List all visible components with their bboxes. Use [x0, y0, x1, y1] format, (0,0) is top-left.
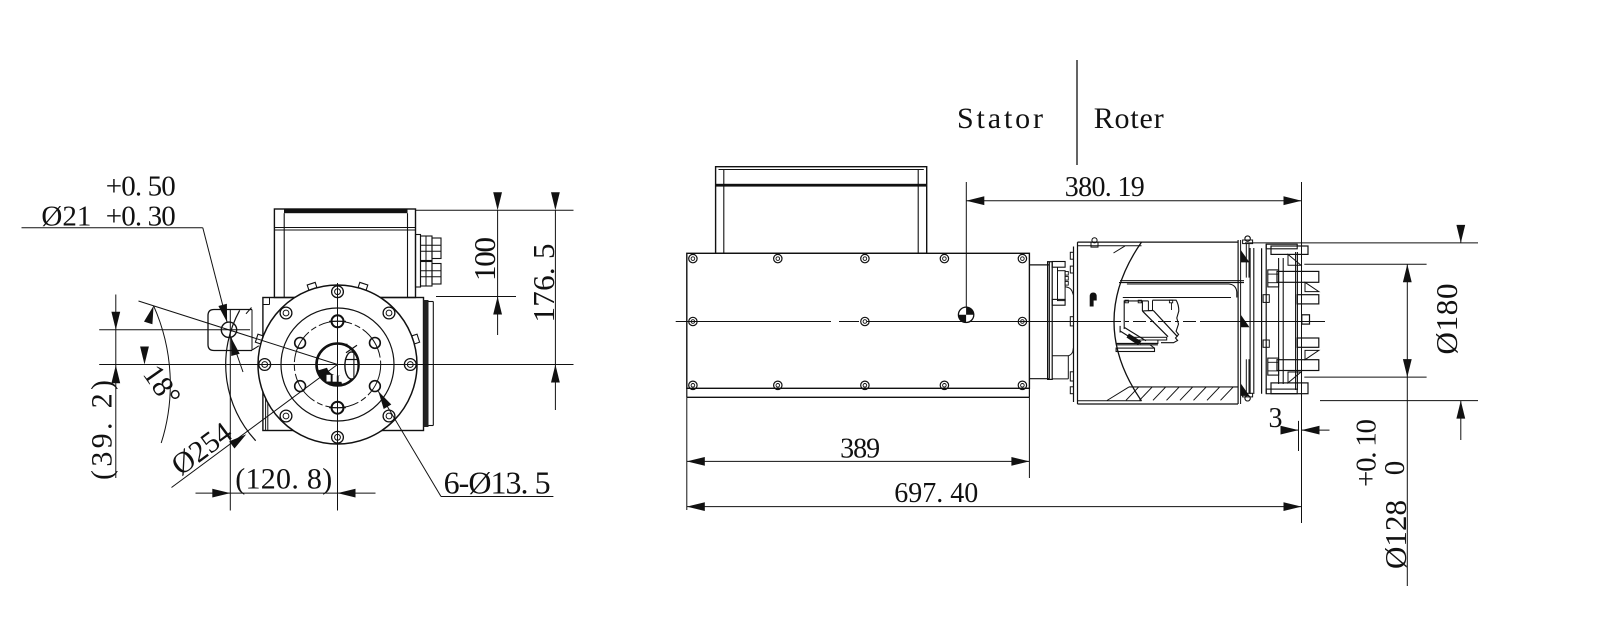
svg-text:Stator: Stator [957, 102, 1043, 135]
hatched section bottom [1129, 386, 1238, 388]
6-Ø13.5 leader [378, 391, 441, 496]
389 dimension [686, 397, 688, 478]
svg-text:(120. 8): (120. 8) [235, 463, 332, 496]
front view motor body plate [263, 298, 424, 431]
rotor clamp mechanism [1124, 301, 1142, 329]
inner bolt detail [1090, 293, 1097, 307]
Ø180 dimension [1245, 242, 1478, 244]
neck cylinder [1029, 264, 1049, 266]
end disc with teeth [1261, 248, 1263, 394]
central bore with shaft section [317, 344, 359, 386]
svg-text:389: 389 [840, 433, 880, 464]
left tab lug [208, 310, 252, 351]
svg-text:3: 3 [1269, 403, 1283, 434]
rotor housing shell [1078, 241, 1239, 243]
flange clip tabs [412, 334, 420, 344]
svg-text:176. 5: 176. 5 [526, 244, 561, 323]
front cable glands [416, 235, 421, 288]
380.19 dimension [965, 182, 967, 307]
flange inner circle [281, 308, 394, 421]
697.40 dimension [686, 478, 688, 510]
rotor left plate [1073, 247, 1075, 403]
3 dimension [1298, 421, 1300, 451]
front horizontal centerline [99, 364, 573, 366]
hatch top-left tick [1114, 246, 1126, 253]
svg-text:Roter: Roter [1094, 102, 1164, 135]
svg-text:+0. 50: +0. 50 [106, 171, 176, 203]
side view stator housing [687, 253, 1030, 388]
176.5 dimension [554, 210, 556, 410]
housing screws [689, 254, 697, 262]
front terminal box [274, 209, 415, 298]
coupling assembly [1048, 262, 1053, 380]
svg-text:+0. 10: +0. 10 [1351, 419, 1383, 487]
svg-text:+0. 30: +0. 30 [106, 201, 176, 233]
svg-text:697. 40: 697. 40 [894, 478, 978, 509]
side centerline [676, 321, 831, 323]
Ø254 leader line [172, 365, 338, 488]
(120.8) dimension [229, 310, 231, 511]
100 dimension [416, 209, 574, 211]
svg-text:Ø180: Ø180 [1429, 284, 1464, 355]
svg-text:Ø128: Ø128 [1378, 500, 1413, 569]
svg-text:6-Ø13. 5: 6-Ø13. 5 [444, 464, 551, 500]
svg-text:100: 100 [467, 237, 502, 281]
rotor right plate [1237, 240, 1239, 404]
18 deg construction line [139, 301, 338, 365]
svg-text:(39. 2): (39. 2) [86, 380, 119, 480]
eight flange screws [332, 286, 344, 298]
svg-text:Ø21: Ø21 [41, 201, 91, 233]
(39.2) dimension [115, 295, 117, 479]
18 deg dimension arc [154, 306, 171, 443]
stator/rotor divider line [1076, 60, 1078, 165]
side terminal box [716, 167, 927, 254]
Ø254 flange arc [226, 310, 256, 440]
bolt circle [294, 321, 380, 407]
svg-text:0: 0 [1379, 461, 1411, 476]
Ø21 tab hole [221, 322, 236, 337]
stator/rotor datum symbol [958, 307, 973, 322]
front body right side plate [424, 300, 429, 427]
flange outer circle (Ø180 face) [258, 285, 417, 444]
svg-text:380. 19: 380. 19 [1065, 172, 1145, 203]
front vertical centerline [337, 283, 339, 511]
stator core bands [1120, 280, 1244, 282]
right extension line [1301, 182, 1303, 523]
Ø128 dimension [1304, 263, 1426, 265]
Ø21 leader [22, 227, 203, 229]
six Ø13.5 bolt holes [332, 315, 344, 327]
rotor cylinder silhouette arc [1114, 242, 1142, 401]
